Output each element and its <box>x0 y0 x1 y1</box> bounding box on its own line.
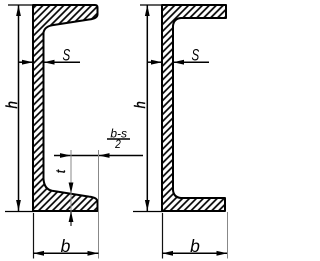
wire: top extension line, channel 1 <box>8 4 34 6</box>
wire: extension line right, dimension b, channel 2 <box>227 212 229 259</box>
arrowhead right, dimension b, channel 2 <box>217 251 228 256</box>
wire: extension line at flange mid-outstand (upper) <box>70 150 72 212</box>
wire: bottom extension line, channel 2 <box>133 211 163 213</box>
svg-text:t: t <box>53 169 68 173</box>
arrowhead right, dimension s, channel 2 <box>151 60 162 65</box>
arrowhead right, dimension b, channel 1 <box>88 251 99 256</box>
arrowhead left, dimension s, channel 2 <box>173 60 184 65</box>
wire: bottom extension line, channel 1 <box>5 211 34 213</box>
arrowhead up, dimension h, channel 2 <box>145 5 150 16</box>
fraction bar <box>107 138 130 140</box>
arrowhead left, dimension b, channel 2 <box>162 251 173 256</box>
arrowhead left, dimension s, channel 1 <box>44 60 55 65</box>
svg-text:S: S <box>191 46 199 65</box>
arrowhead up, dimension h, channel 1 <box>16 5 21 16</box>
wire: extension line at flange tip, channel 1 <box>98 150 100 259</box>
svg-text:2: 2 <box>114 138 121 151</box>
wire: top extension line, channel 2 <box>140 4 163 6</box>
svg-text:b: b <box>190 236 200 256</box>
wire: extension line at flange mid-outstand (lower tail) <box>70 212 72 226</box>
wire: dimension line s left part, channel 2 <box>147 61 162 63</box>
arrowhead down, dimension t <box>69 183 74 194</box>
arrowhead up, dimension t <box>69 211 74 222</box>
wire: extension line left, dimension b, channel 1 <box>33 213 35 259</box>
wire: dimension line h, channel 2 <box>146 5 148 211</box>
wire: dimension line (b-s)/2 <box>54 155 143 157</box>
channel section 2 (parallel-flange U-profile, hatched) <box>162 5 226 211</box>
wire: dimension line s right part, channel 2 <box>173 61 209 63</box>
wire: dimension line b, channel 1 <box>33 252 99 254</box>
svg-text:S: S <box>62 46 70 65</box>
wire: extension line left, dimension b, channel 2 <box>162 213 164 259</box>
arrowhead down, dimension h, channel 2 <box>145 200 150 211</box>
svg-text:h: h <box>131 101 148 108</box>
wire: dimension line h, channel 1 <box>18 5 20 211</box>
svg-text:b: b <box>61 236 71 256</box>
wire: dimension line s right part, channel 1 <box>44 61 81 63</box>
arrowhead left, dimension (b-s)/2 <box>99 153 110 158</box>
svg-text:h: h <box>4 101 21 108</box>
arrowhead down, dimension h, channel 1 <box>16 200 21 211</box>
channel section 1 (tapered-flange U-profile, hatched) <box>33 5 98 211</box>
arrowhead right, dimension s, channel 1 <box>22 60 33 65</box>
wire: dimension line s left part, channel 1 <box>19 61 34 63</box>
wire: dimension line b, channel 2 <box>162 252 227 254</box>
arrowhead left, dimension b, channel 1 <box>33 251 44 256</box>
arrowhead right, dimension (b-s)/2 <box>60 153 71 158</box>
